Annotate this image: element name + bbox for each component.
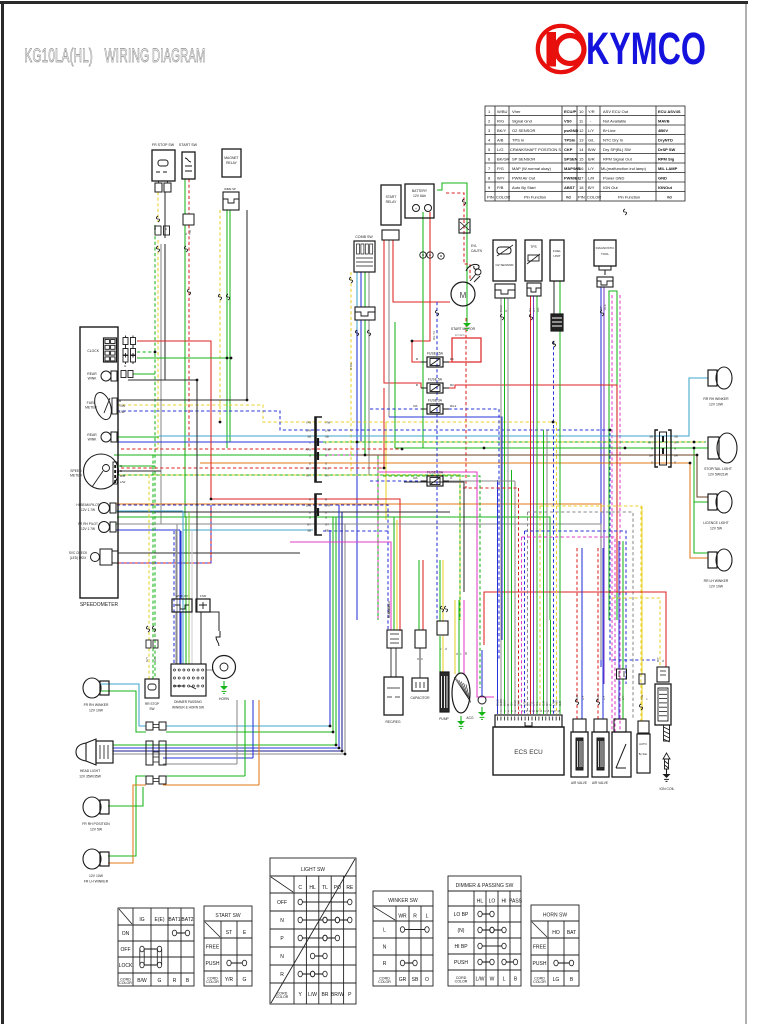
svg-text:ON: ON <box>122 931 130 937</box>
auto mid plug <box>639 674 645 684</box>
svg-text:L/G: L/G <box>497 147 503 152</box>
svg-text:By Star: By Star <box>639 752 648 756</box>
plug pair row G2 <box>123 349 128 356</box>
svg-text:SB: SB <box>674 434 678 438</box>
svg-text:R/Y: R/Y <box>325 466 330 470</box>
svg-text:SVC CHECK: SVC CHECK <box>69 551 88 555</box>
12V 10W lamp <box>83 849 101 869</box>
wire diag V <box>603 287 605 684</box>
wire position G <box>108 787 143 806</box>
wire row SB y726 <box>166 725 330 727</box>
svg-text:SPEED: SPEED <box>70 469 82 473</box>
wire band L left <box>114 441 357 443</box>
svg-text:BAT1: BAT1 <box>168 917 180 923</box>
svg-text:HORN: HORN <box>219 697 230 701</box>
wire ecu strand 17 <box>550 620 552 714</box>
svg-text:Y/W: Y/W <box>306 420 312 424</box>
diagnostic tool <box>594 240 616 266</box>
wire blue main vertical <box>356 330 358 620</box>
LICENCE LIGHT lamp <box>708 494 717 510</box>
wire lamp1 BK <box>128 379 197 381</box>
svg-text:B+Line: B+Line <box>603 128 616 133</box>
svg-text:R/Y: R/Y <box>306 466 311 470</box>
table winker switch <box>373 891 433 986</box>
svg-text:L/W: L/W <box>306 428 311 432</box>
svg-text:GY: GY <box>325 522 329 526</box>
FR RH POSITION lamp <box>83 797 101 817</box>
switch hook <box>466 264 479 271</box>
svg-text:PIN: PIN <box>578 195 585 200</box>
svg-text:12V 5W: 12V 5W <box>90 828 103 832</box>
svg-text:R/L Y2: R/L Y2 <box>432 331 436 340</box>
wire riser GY x237 <box>236 700 238 764</box>
svg-text:L/Y: L/Y <box>621 695 625 700</box>
wire comb sw Y <box>350 272 352 475</box>
svg-text:HI BEAM PILOT: HI BEAM PILOT <box>76 503 99 507</box>
svg-text:FR RH PILOT: FR RH PILOT <box>78 522 98 526</box>
ecs ecu box <box>493 727 564 775</box>
pickup coil <box>478 696 486 704</box>
stop tail light <box>708 437 719 459</box>
wire mid G x480 <box>383 476 480 688</box>
svg-text:R/G: R/G <box>497 119 504 124</box>
wire band G/Y right <box>323 441 706 443</box>
wire evl red dash low <box>465 318 467 488</box>
wire pickup L <box>481 650 483 696</box>
svg-text:L/Y: L/Y <box>581 695 585 700</box>
svg-text:FR LH WINKER: FR LH WINKER <box>84 880 109 884</box>
wire bandB SB stub <box>183 529 313 531</box>
svg-text:AIR VALVE: AIR VALVE <box>592 781 608 785</box>
wire start relay R <box>384 240 421 388</box>
head light <box>76 739 96 765</box>
svg-text:FR RH POSITION: FR RH POSITION <box>82 822 110 826</box>
svg-text:G/Y: G/Y <box>674 440 679 444</box>
wire start sw Y/R <box>188 179 190 214</box>
svg-text:C: C <box>298 885 302 891</box>
svg-text:G/Y: G/Y <box>325 473 330 477</box>
svg-text:O2 SENSOR: O2 SENSOR <box>512 128 535 133</box>
wire av2 Rd <box>597 548 599 719</box>
svg-text:R/L: R/L <box>413 476 418 480</box>
svg-text:LIGHT SW: LIGHT SW <box>301 867 325 873</box>
svg-text:L/W: L/W <box>120 480 126 484</box>
svg-text:FREE: FREE <box>206 944 220 950</box>
wire auto Y2 <box>641 684 643 721</box>
wire ecu strand 7 <box>518 488 520 714</box>
wire pump Y2 <box>442 636 444 672</box>
svg-text:N: N <box>280 918 284 924</box>
wire ecu strand 10 <box>527 512 529 714</box>
svg-text:REAR: REAR <box>87 372 97 376</box>
svg-text:FR RH WINKER: FR RH WINKER <box>84 703 109 707</box>
svg-text:W/BU: W/BU <box>497 109 508 114</box>
wire comb sw L <box>360 272 362 307</box>
svg-text:TPS In: TPS In <box>512 138 524 143</box>
svg-text:P/B: P/B <box>497 185 504 190</box>
plug row lamp1 <box>121 371 126 378</box>
svg-text:12V 35W/35W: 12V 35W/35W <box>79 775 102 779</box>
dimmer passing winker horn switch <box>171 664 206 696</box>
svg-text:IGNOut: IGNOut <box>658 185 673 190</box>
svg-text:G: G <box>309 515 311 519</box>
wire fuel G <box>559 281 561 314</box>
svg-text:12: 12 <box>579 128 584 133</box>
svg-text:COLOR: COLOR <box>496 195 510 200</box>
svg-text:AIR VALVE: AIR VALVE <box>571 781 587 785</box>
ecs ecu connector strip <box>495 715 562 727</box>
wire speedo R <box>137 341 211 499</box>
FR RH WINKER lamp <box>83 678 101 698</box>
wire cap link <box>419 648 421 678</box>
svg-text:Pin Function: Pin Function <box>524 195 546 200</box>
svg-text:IGN COIL: IGN COIL <box>660 787 675 791</box>
svg-text:W: W <box>464 652 468 655</box>
wire band L/W <box>117 411 657 660</box>
svg-text:RR STOP: RR STOP <box>145 702 159 706</box>
svg-text:G: G <box>651 446 653 450</box>
wire ecu strand 15 <box>543 430 545 714</box>
wire wr up GY <box>175 530 177 599</box>
wire battery R <box>412 212 430 362</box>
wire recreg links <box>390 648 392 677</box>
wire comb GY down <box>368 320 370 475</box>
wire ecu strand 5 <box>511 470 513 714</box>
winker pilot lamp <box>99 522 110 533</box>
wire ign R <box>617 592 666 667</box>
svg-text:RR LH WINKER: RR LH WINKER <box>704 579 729 583</box>
wire sensor L <box>618 541 620 669</box>
wire spd G <box>118 465 155 467</box>
svg-text:Y/G: Y/G <box>640 694 644 700</box>
svg-text:13: 13 <box>579 138 584 143</box>
battery ring terminals <box>420 252 426 258</box>
svg-text:12V 10W: 12V 10W <box>89 709 104 713</box>
svg-text:FUSE 3A: FUSE 3A <box>428 399 443 403</box>
wire bandB BK <box>117 511 450 513</box>
wire ecu strand 1 <box>497 480 499 714</box>
svg-text:Pin Function: Pin Function <box>618 195 640 200</box>
wire ecu strand 18 <box>553 341 555 714</box>
svg-text:LO BP: LO BP <box>454 912 469 918</box>
svg-text:R/L2: R/L2 <box>450 404 457 408</box>
wire FR stop sw BK <box>164 192 166 238</box>
svg-text:WR: WR <box>398 913 407 919</box>
wire fuse3 L in <box>370 408 421 410</box>
svc check led box <box>100 549 112 565</box>
svg-text:BR: BR <box>322 992 329 998</box>
svg-text:CAUTN: CAUTN <box>471 249 483 253</box>
wire comb SB down <box>356 320 358 436</box>
wire bandB GY <box>117 524 601 660</box>
svg-text:COLOR: COLOR <box>119 981 132 985</box>
wire lamp2 G <box>117 436 159 438</box>
rr stop switch <box>145 679 159 698</box>
svg-text:FUSE 15A: FUSE 15A <box>427 352 444 356</box>
wire rrstop Y x149b <box>148 648 150 679</box>
wire ecu strand 11 <box>530 296 532 714</box>
high beam pilot lamp <box>99 503 110 514</box>
svg-text:12V 1.7W: 12V 1.7W <box>81 527 95 531</box>
svg-text:CAPACITOR: CAPACITOR <box>411 696 431 700</box>
wire ecu strand 12 <box>533 296 535 714</box>
wire lamp1 G <box>133 373 155 375</box>
wire riser L x330 <box>329 530 331 726</box>
wire comb G down <box>364 320 366 455</box>
border right <box>745 4 747 1024</box>
wire wr GY <box>175 612 177 664</box>
svg-text:SW: SW <box>149 707 154 711</box>
svg-text:15: 15 <box>579 157 584 162</box>
svg-text:G/Y: G/Y <box>648 440 653 444</box>
svg-text:R: R <box>309 497 311 501</box>
svg-text:M: M <box>460 291 467 300</box>
svg-text:RPM Signal Out: RPM Signal Out <box>603 157 633 162</box>
wire pilot G <box>116 523 186 525</box>
wire diag G left <box>608 291 610 620</box>
svg-text:ABST: ABST <box>564 185 575 190</box>
wire U magenta <box>522 537 616 732</box>
wire hibeam SB <box>116 510 183 512</box>
wire FR stop sw BK lower <box>164 244 166 380</box>
svg-text:12V 5W/21W: 12V 5W/21W <box>708 473 729 477</box>
table dimmer passing switch <box>448 876 521 986</box>
wire motor red dash <box>446 193 470 281</box>
wire av2 L <box>602 548 604 719</box>
svg-text:R/L: R/L <box>413 404 418 408</box>
wire sensor G2 <box>622 679 624 719</box>
svg-text:TL: TL <box>322 885 328 891</box>
svg-text:RPM Sig: RPM Sig <box>658 157 675 162</box>
wire band O <box>200 463 708 558</box>
svg-text:L: L <box>383 927 386 933</box>
wire diag G loop <box>609 291 617 620</box>
svg-text:CKP: CKP <box>564 147 573 152</box>
auto by starter <box>638 721 649 733</box>
svg-text:G/B: G/B <box>558 701 562 706</box>
wire ecu strand 13 <box>536 296 538 714</box>
svg-text:ECS ECU: ECS ECU <box>514 749 543 756</box>
wire FR stop sw G/Y lower <box>157 240 159 449</box>
svg-text:FREE: FREE <box>533 944 547 950</box>
svg-text:R1: R1 <box>450 357 454 361</box>
svg-text:EVL: EVL <box>471 244 477 248</box>
wire start relay GY <box>388 240 390 417</box>
wire blue y417 <box>389 417 502 640</box>
svg-text:W/Y: W/Y <box>497 176 505 181</box>
svg-text:SB: SB <box>307 434 311 438</box>
svg-text:L/W: L/W <box>306 503 311 507</box>
svg-text:WINK: WINK <box>88 377 98 381</box>
svg-text:IG: IG <box>139 917 144 923</box>
svg-text:12V 5W: 12V 5W <box>710 527 723 531</box>
connector pair headlight row <box>146 741 153 765</box>
svg-text:B/LO: B/LO <box>499 304 503 312</box>
svg-text:START SW: START SW <box>215 913 241 919</box>
svg-text:ECU/P: ECU/P <box>564 109 577 114</box>
ign coil connector big <box>655 684 671 725</box>
wire green x395 <box>394 322 396 448</box>
svg-text:PUSH: PUSH <box>206 961 220 967</box>
svg-text:L/W: L/W <box>476 976 485 982</box>
wire dim L x174 <box>173 531 175 664</box>
svg-text:WINKER SW: WINKER SW <box>388 898 418 904</box>
connector C3 right <box>655 430 671 467</box>
wire band R/W <box>121 448 402 450</box>
svg-text:B: B <box>164 228 168 230</box>
svg-text:(N): (N) <box>458 928 465 934</box>
svg-text:OFF: OFF <box>277 900 287 906</box>
wire acg G <box>458 600 460 673</box>
svg-text:P/G: P/G <box>497 166 504 171</box>
wire magnet relay G1 <box>226 210 228 448</box>
wire comb sw GY <box>368 272 370 307</box>
svg-text:WIRING: WIRING <box>105 45 150 67</box>
wire headlight DL <box>113 750 342 752</box>
wire pump Y upp <box>442 560 444 621</box>
wire comb sw SB <box>356 272 358 307</box>
svg-text:METER: METER <box>70 474 82 478</box>
svg-text:FUEL: FUEL <box>553 249 561 253</box>
svg-text:WINK: WINK <box>88 438 98 442</box>
wire yellow x386 <box>385 422 387 520</box>
svg-text:L/R: L/R <box>588 176 594 181</box>
connector C1 <box>315 417 322 482</box>
svg-text:HI: HI <box>502 898 507 904</box>
wire row L y758 <box>163 757 253 759</box>
svg-text:PUSH: PUSH <box>454 960 468 966</box>
wire ecu strand 4 <box>507 298 509 714</box>
air valve 1 <box>573 719 586 732</box>
svg-text:DIAGNOSTIC: DIAGNOSTIC <box>596 246 616 250</box>
svg-text:Signal Gnd: Signal Gnd <box>512 119 532 124</box>
svg-text:HL: HL <box>477 898 484 904</box>
wire headlight GY <box>113 753 345 755</box>
acg <box>452 673 470 713</box>
svg-text:G/L: G/L <box>588 138 595 143</box>
wire speedo G2 <box>137 351 155 353</box>
svg-text:L/Y: L/Y <box>588 128 594 133</box>
wire acg P <box>463 600 465 674</box>
svg-text:COLOR: COLOR <box>378 980 391 984</box>
wire row O y785 <box>163 784 259 786</box>
battery <box>405 184 434 218</box>
wire pump G up <box>439 560 441 621</box>
wire green dash rr stop <box>154 225 156 679</box>
svg-text:MIL LAMP: MIL LAMP <box>658 166 678 171</box>
svg-text:ST: ST <box>226 930 232 936</box>
wire dim SB x183 <box>182 511 184 664</box>
svg-text:LG: LG <box>553 977 560 983</box>
svg-text:G: G <box>325 515 327 519</box>
wire auto Y <box>641 506 643 674</box>
s-clips <box>156 216 159 222</box>
evl caution connector <box>459 219 470 233</box>
tps <box>525 240 542 281</box>
wire fuse15 R out <box>443 361 452 363</box>
wire av1 L <box>581 548 583 719</box>
spark screw <box>664 725 670 742</box>
wire riser L x253 <box>252 700 254 758</box>
svg-text:Vher: Vher <box>512 109 521 114</box>
wire band G/Y low <box>117 475 460 620</box>
fuel unit connector hatched <box>551 314 563 331</box>
wire magnet relay Y <box>219 210 221 422</box>
start motor <box>451 282 475 306</box>
wire pilot L <box>116 529 180 531</box>
svg-text:+: + <box>415 207 417 211</box>
svg-text:HORN SW: HORN SW <box>543 913 567 919</box>
svg-text:BR: BR <box>649 453 653 457</box>
svg-text:DIMMER PASSING: DIMMER PASSING <box>174 700 202 704</box>
svg-text:4B0V: 4B0V <box>658 128 668 133</box>
svg-text:L/W: L/W <box>325 428 330 432</box>
wire riser G x333 <box>332 517 334 732</box>
junction dots <box>154 351 157 354</box>
wire ecu strand 6 <box>514 481 516 714</box>
wire winkerL G <box>101 691 146 732</box>
svg-text:R: R <box>173 978 177 984</box>
svg-text:START SW: START SW <box>179 143 198 147</box>
table light switch <box>270 858 356 1004</box>
svg-text:HEAD LIGHT: HEAD LIGHT <box>80 769 100 773</box>
wire start sw Y/R low <box>188 225 190 449</box>
svg-text:FSR: FSR <box>200 594 207 598</box>
wire rrstop Y x149 <box>148 475 150 640</box>
svg-text:G/Y: G/Y <box>145 657 149 662</box>
connector pair winker row <box>146 722 153 730</box>
svg-text:B/R: B/R <box>588 157 595 162</box>
svg-text:12V 1.7W: 12V 1.7W <box>81 508 95 512</box>
table starter switch <box>204 906 252 986</box>
svg-text:DLC: DLC <box>603 303 607 310</box>
wire winkerL SB <box>101 684 146 726</box>
svg-text:BLOWER: BLOWER <box>387 603 391 618</box>
ign coil connector small <box>657 667 669 682</box>
svg-text:G: G <box>309 453 311 457</box>
svg-text:L/Y: L/Y <box>588 166 594 171</box>
svg-text:PIN: PIN <box>487 195 494 200</box>
wire dim L x180 <box>179 530 181 664</box>
svg-text:Y: Y <box>439 648 443 650</box>
svg-text:NTC Dry In: NTC Dry In <box>603 138 623 143</box>
svg-text:COMB SW: COMB SW <box>355 235 373 239</box>
wire ecu strand 14 <box>539 506 541 714</box>
fuel unit <box>550 240 564 281</box>
wire sensor G <box>622 541 624 669</box>
wire band BR <box>357 455 708 497</box>
svg-text:VS0: VS0 <box>564 119 572 124</box>
speedometer assembly box <box>80 327 118 598</box>
svg-text:B: B <box>119 399 121 403</box>
svg-text:R: R <box>325 497 327 501</box>
wire fuel BK <box>553 281 555 314</box>
fuel meter <box>92 390 115 421</box>
svg-text:MAP/MB: MAP/MB <box>564 166 580 171</box>
wire U blue <box>525 531 627 684</box>
wire diag P <box>611 295 613 740</box>
svg-text:RELAY: RELAY <box>386 200 398 204</box>
KYMCO logo emblem <box>538 26 584 72</box>
wire blower Ld <box>436 302 438 621</box>
wire bandB L/W <box>117 505 388 630</box>
title <box>25 45 206 67</box>
svg-text:HO: HO <box>552 930 560 936</box>
wire acg Y <box>454 600 456 674</box>
wire recreg P <box>290 542 391 630</box>
svg-text:START MOTOR: START MOTOR <box>451 327 476 331</box>
svg-text:START: START <box>386 195 397 199</box>
